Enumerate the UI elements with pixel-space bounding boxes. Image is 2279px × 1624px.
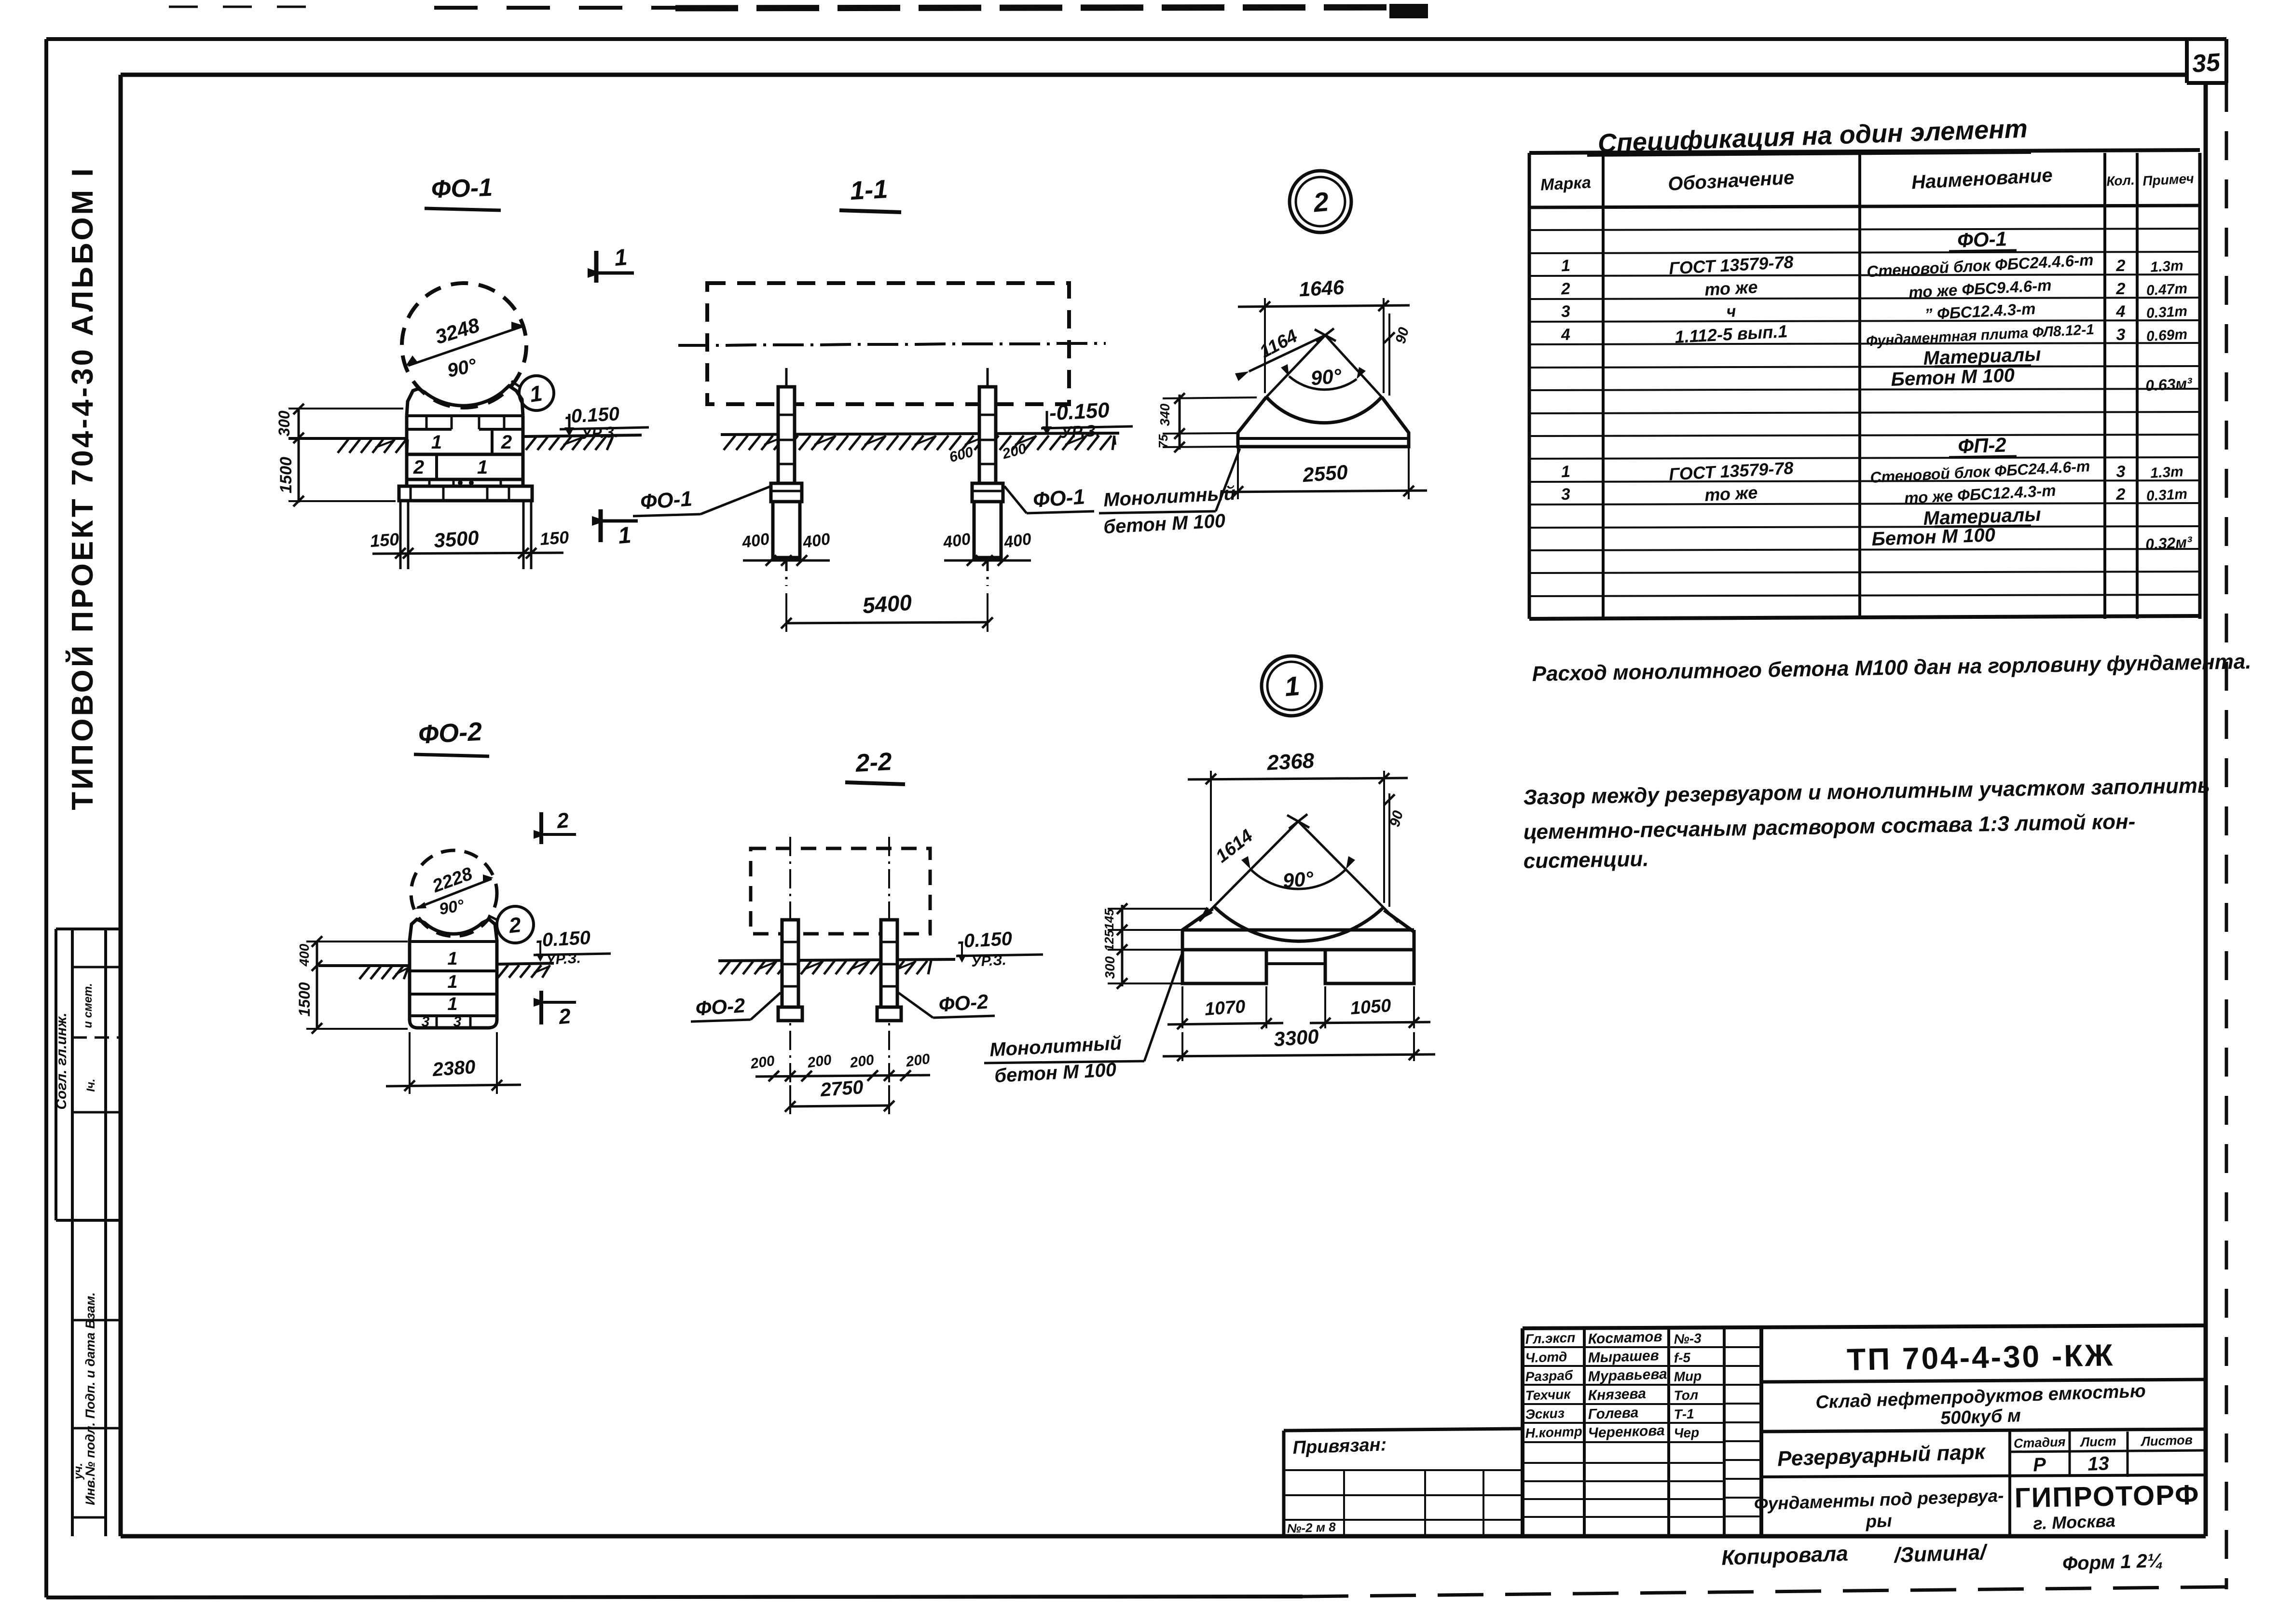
- svg-text:-0.150: -0.150: [957, 928, 1013, 952]
- svg-text:2550: 2550: [1302, 461, 1348, 486]
- foundation FO-1 masonry course lines: [407, 428, 452, 431]
- tank dashed circle FO-1: [402, 283, 526, 408]
- svg-text:2: 2: [557, 1004, 572, 1029]
- detail 2 radius lines to horns: [1266, 335, 1325, 397]
- svg-text:Форм 1 2¼: Форм 1 2¼: [2062, 1550, 2164, 1574]
- svg-text:ФО-1: ФО-1: [431, 174, 493, 204]
- svg-text:0.69т: 0.69т: [2146, 327, 2188, 344]
- tank dashed outline rectangle in section 2-2: [751, 848, 930, 934]
- svg-text:ФП-2: ФП-2: [1958, 433, 2007, 457]
- svg-text:Примеч: Примеч: [2142, 171, 2195, 189]
- svg-text:Тол: Тол: [1674, 1387, 1699, 1403]
- foundation FO-1 saddle bed joint line: [407, 414, 523, 417]
- ground line right of FO-1: [523, 435, 642, 437]
- svg-text:1: 1: [613, 245, 628, 271]
- svg-text:1.3т: 1.3т: [2150, 464, 2183, 481]
- svg-text:75: 75: [1156, 434, 1170, 448]
- FO-1 bottom dimension 150-3500-150: [372, 553, 563, 554]
- pier FO-2 at x=1843 column: [881, 920, 897, 1007]
- svg-text:ГИПРОТОРФ: ГИПРОТОРФ: [2014, 1479, 2200, 1514]
- pier FO-1 at x=2047 collar: [972, 483, 1003, 502]
- svg-text:0.32м³: 0.32м³: [2145, 533, 2193, 553]
- ground line section 1-1: [721, 433, 1119, 435]
- svg-text:1500: 1500: [277, 457, 295, 493]
- svg-text:125: 125: [1102, 930, 1116, 951]
- tank dashed outline rectangle in section 1-1: [707, 283, 1069, 404]
- FO-2 bottom dimension 2380: [409, 1032, 411, 1094]
- pier FO-1 at x=1630 collar: [771, 483, 802, 502]
- svg-text:1-1: 1-1: [850, 175, 889, 205]
- svg-text:Лист: Лист: [2079, 1434, 2116, 1450]
- svg-text:-0.150: -0.150: [1049, 398, 1111, 425]
- svg-text:35: 35: [2191, 48, 2222, 78]
- svg-text:Ч.отд: Ч.отд: [1525, 1349, 1567, 1365]
- svg-text:систенции.: систенции.: [1523, 847, 1649, 873]
- svg-text:Т-1: Т-1: [1674, 1406, 1694, 1422]
- svg-text:ч: ч: [1726, 302, 1737, 321]
- foundation FO-1 saddle outline: [407, 386, 523, 416]
- svg-text:400: 400: [942, 530, 972, 552]
- svg-text:0.47т: 0.47т: [2146, 281, 2188, 299]
- pier FO-1 at x=2047 column: [979, 387, 996, 483]
- svg-text:1: 1: [447, 972, 457, 992]
- svg-text:150: 150: [370, 529, 400, 551]
- svg-text:300: 300: [275, 410, 293, 437]
- svg-text:1.3т: 1.3т: [2150, 258, 2183, 275]
- svg-text:Согл. гл.инж.: Согл. гл.инж.: [54, 1012, 69, 1109]
- svg-text:УР.З.: УР.З.: [581, 423, 619, 442]
- detail 2 bottom dimension 2550: [1237, 447, 1239, 499]
- svg-text:ФО-1: ФО-1: [1957, 227, 2007, 252]
- pier FO-1 at x=2047 base block: [974, 502, 1001, 558]
- detail 2 saddle arc radius 1164: [1266, 397, 1382, 423]
- FO-1 bottom trench/extension lines: [399, 501, 402, 569]
- svg-text:Эскиз: Эскиз: [1525, 1406, 1565, 1422]
- svg-text:Копировала: Копировала: [1721, 1542, 1848, 1569]
- foundation FO-1 top course joints: [426, 416, 428, 429]
- svg-text:1050: 1050: [1350, 996, 1392, 1019]
- svg-text:Р: Р: [2032, 1454, 2046, 1476]
- signature table row lines: [1523, 1346, 1724, 1348]
- narrow revision column rows: [1724, 1346, 1761, 1348]
- svg-text:Князева: Князева: [1588, 1386, 1646, 1404]
- svg-text:1: 1: [477, 457, 488, 478]
- svg-text:1: 1: [447, 994, 457, 1014]
- detail 2 right mini dim 90: [1388, 314, 1390, 396]
- svg-text:400: 400: [741, 530, 771, 552]
- detail 1 overall dimension 3300: [1181, 1032, 1183, 1061]
- svg-text:3: 3: [1561, 485, 1571, 504]
- stage list columns: [2008, 1432, 2011, 1536]
- ground line right of FO-2: [497, 963, 554, 964]
- svg-text:№-3: №-3: [1674, 1331, 1702, 1347]
- outer sheet border: [46, 37, 2226, 41]
- ground hatch right of FO-2: [498, 965, 508, 978]
- detail 1 leg dimensions 1070 and 1050: [1181, 986, 1183, 1028]
- pier FO-1 at x=1630 base block: [773, 502, 800, 558]
- svg-text:Бетон М 100: Бетон М 100: [1891, 365, 2015, 390]
- svg-text:ФО-1: ФО-1: [640, 487, 693, 514]
- svg-text:2: 2: [1560, 280, 1571, 299]
- ground hatch right of FO-1: [526, 437, 536, 450]
- svg-text:уч.: уч.: [72, 1463, 85, 1480]
- signature table verticals: [1583, 1328, 1586, 1536]
- pier FO-1 at x=1630 centerline: [785, 368, 788, 390]
- ground hatch section 2-2: [720, 961, 730, 974]
- svg-text:ТП 704-4-30 -КЖ: ТП 704-4-30 -КЖ: [1846, 1337, 2114, 1377]
- svg-text:Мырашев: Мырашев: [1588, 1348, 1659, 1366]
- svg-text:f-5: f-5: [1674, 1350, 1691, 1365]
- svg-text:Голева: Голева: [1588, 1405, 1639, 1422]
- svg-text:4: 4: [1560, 326, 1571, 344]
- svg-text:3: 3: [453, 1014, 462, 1030]
- svg-text:то же: то же: [1704, 482, 1758, 505]
- svg-text:500куб м: 500куб м: [1940, 1406, 2021, 1429]
- svg-text:150: 150: [539, 527, 570, 549]
- detail 2 angle arc 90deg: [1289, 376, 1357, 390]
- detail 1 saddle body slab and legs: [1182, 909, 1414, 983]
- foundation FO-1 thin course with dots: [428, 479, 431, 486]
- section mark 2 top: [539, 812, 543, 844]
- svg-text:Привязан:: Привязан:: [1292, 1434, 1387, 1458]
- specification table grid: [1529, 150, 2200, 153]
- svg-text:1070: 1070: [1204, 996, 1246, 1020]
- foundation FO-2 outline with saddle top and rounded bottom: [410, 919, 497, 1028]
- svg-text:г. Москва: г. Москва: [2033, 1511, 2116, 1533]
- svg-text:то же: то же: [1704, 277, 1758, 300]
- svg-text:0.63м³: 0.63м³: [2145, 374, 2193, 394]
- detail 1 right mini dim 90: [1388, 793, 1390, 907]
- svg-text:5400: 5400: [862, 590, 913, 618]
- svg-text:ФО-1: ФО-1: [1032, 485, 1086, 512]
- svg-text:Кол.: Кол.: [2106, 173, 2135, 189]
- detail 1 left dimension chain: [1121, 905, 1124, 986]
- detail 1 apex center cross: [1287, 815, 1309, 828]
- svg-text:400: 400: [1002, 530, 1033, 552]
- foundation FO-1 course3 joint and labels: [435, 454, 438, 479]
- pier base dimension 400-400 at x=2047: [944, 560, 1031, 562]
- svg-text:3: 3: [1561, 302, 1571, 321]
- svg-text:2: 2: [1312, 186, 1330, 218]
- svg-text:и смет.: и смет.: [82, 983, 95, 1028]
- left margin stamp table lower: [72, 1319, 121, 1322]
- svg-text:ФО-2: ФО-2: [695, 994, 746, 1020]
- svg-text:Косматов: Косматов: [1588, 1329, 1662, 1347]
- svg-text:2: 2: [501, 432, 512, 453]
- pier FO-2 at x=1638 bottom collar: [778, 1007, 802, 1021]
- span dimension 5400 between piers: [785, 593, 787, 632]
- svg-text:1: 1: [1561, 463, 1571, 481]
- svg-text:Инв.№ подл. Подп. и дата Взам: Инв.№ подл. Подп. и дата Взам.: [83, 1292, 97, 1505]
- svg-text:3500: 3500: [433, 526, 480, 552]
- svg-text:1: 1: [1561, 257, 1571, 275]
- svg-text:1646: 1646: [1298, 276, 1345, 301]
- svg-text:400: 400: [297, 943, 312, 967]
- svg-text:1: 1: [431, 432, 442, 453]
- svg-text:Бетон М 100: Бетон М 100: [1871, 524, 1996, 550]
- svg-text:0.31т: 0.31т: [2146, 486, 2188, 504]
- svg-text:Разраб: Разраб: [1525, 1368, 1573, 1384]
- detail 1 saddle arc radius 1614: [1214, 907, 1383, 941]
- ground hatch left of FO-1: [338, 439, 348, 453]
- svg-text:ТИПОВОЙ ПРОЕКТ 704-4-30 АЛЬ: ТИПОВОЙ ПРОЕКТ 704-4-30 АЛЬБОМ I: [66, 166, 99, 810]
- detail 1 radius dimension 1614 label: [1199, 907, 1213, 920]
- diameter dimension 2228 of FO-2 circle: [417, 879, 492, 908]
- svg-text:Муравьева: Муравьева: [1588, 1366, 1667, 1385]
- foundation FO-2 bottom row joints and labels 3 3: [436, 1016, 438, 1028]
- span dimension 2750 between FO-2 piers: [789, 1085, 791, 1114]
- svg-text:Марка: Марка: [1540, 173, 1592, 194]
- svg-text:Черенкова: Черенкова: [1588, 1422, 1665, 1441]
- ground line left of FO-2: [318, 964, 410, 967]
- detail 2 radius dimension 1164 with arrow: [1249, 335, 1325, 371]
- svg-text:1: 1: [447, 949, 457, 969]
- svg-text:3: 3: [2116, 463, 2126, 481]
- svg-text:340: 340: [1157, 403, 1172, 426]
- foundation FO-1 bottom plate: [399, 486, 532, 501]
- svg-text:УР.З.: УР.З.: [545, 950, 581, 968]
- left margin stamp table upper: [56, 928, 121, 930]
- tank axis chain line in section 1-1: [678, 344, 709, 347]
- svg-text:13: 13: [2087, 1453, 2110, 1475]
- svg-text:300: 300: [1102, 956, 1117, 979]
- foundation FO-2 course lines: [410, 940, 497, 943]
- page number box 35: [2185, 39, 2189, 83]
- detail mark circle 1 at FO-1 saddle: [519, 376, 554, 410]
- svg-text:№-2 м 8: №-2 м 8: [1287, 1519, 1336, 1536]
- svg-text:90°: 90°: [1310, 364, 1343, 389]
- svg-text:2750: 2750: [819, 1077, 864, 1101]
- svg-text:/Зимина/: /Зимина/: [1893, 1541, 1989, 1568]
- svg-text:Техчик: Техчик: [1525, 1387, 1572, 1403]
- detail 1 mark double circle: [1262, 656, 1321, 716]
- svg-text:2: 2: [2116, 485, 2126, 504]
- svg-text:2: 2: [413, 457, 424, 478]
- detail 2 left dimension chain: [1179, 395, 1181, 450]
- svg-text:Мир: Мир: [1674, 1368, 1702, 1384]
- FO-2 left dimension chain: [316, 941, 318, 1030]
- diameter dimension 3248 of FO-1 circle: [408, 327, 522, 366]
- title block outer top edge: [1523, 1325, 2206, 1328]
- svg-text:Чер: Чер: [1674, 1425, 1700, 1441]
- detail mark circle 2 at FO-2: [497, 906, 534, 943]
- svg-text:1: 1: [617, 522, 632, 549]
- svg-text:-0.150: -0.150: [535, 927, 591, 951]
- svg-text:0.31т: 0.31т: [2146, 303, 2188, 321]
- svg-text:Листов: Листов: [2140, 1433, 2193, 1449]
- detail 1 top dimension 2368: [1210, 771, 1212, 901]
- svg-text:1: 1: [1283, 670, 1301, 702]
- detail 1 angle arc 90deg: [1250, 869, 1346, 889]
- svg-text:400: 400: [801, 530, 832, 552]
- tank dashed circle FO-2: [411, 850, 497, 936]
- svg-text:145: 145: [1102, 909, 1116, 930]
- svg-text:УР.З.: УР.З.: [971, 952, 1006, 970]
- pier FO-2 at x=1843 bottom collar: [877, 1007, 901, 1021]
- svg-text:3: 3: [422, 1014, 430, 1030]
- svg-text:2: 2: [555, 808, 570, 833]
- ground hatch section 1-1: [724, 436, 735, 450]
- svg-text:Н.контр: Н.контр: [1525, 1424, 1582, 1441]
- detail 1 radius lines to horns: [1199, 821, 1298, 921]
- section mark 1 bottom: [599, 509, 603, 542]
- ground hatch left of FO-2: [359, 967, 370, 979]
- svg-text:2380: 2380: [431, 1056, 476, 1080]
- pier FO-1 at x=1630 column: [778, 387, 795, 483]
- foundation FO-1 course2 joint and labels: [491, 429, 494, 454]
- section mark 2 bottom: [539, 991, 543, 1024]
- pier FO-1 at x=2047 centerline: [987, 368, 989, 390]
- svg-text:1500: 1500: [296, 982, 313, 1016]
- section mark 1 top: [594, 251, 599, 283]
- detail 2 saddle body and slab: [1238, 397, 1409, 447]
- svg-text:Iч.: Iч.: [84, 1078, 97, 1092]
- svg-text:90°: 90°: [1282, 867, 1315, 892]
- pier FO-2 at x=1843 centerline: [888, 837, 890, 856]
- FO-1 left dimension chain: [298, 408, 300, 503]
- privyazan box: [1284, 1429, 1523, 1431]
- svg-text:2-2: 2-2: [854, 748, 892, 778]
- svg-text:ФО-2: ФО-2: [938, 990, 989, 1016]
- svg-text:3: 3: [2116, 326, 2126, 344]
- pier FO-2 at x=1638 column: [782, 920, 798, 1007]
- svg-text:2368: 2368: [1266, 749, 1315, 775]
- pier base dimension 400-400 at x=1630: [743, 560, 830, 562]
- svg-text:ры: ры: [1865, 1511, 1893, 1531]
- svg-text:2: 2: [2116, 257, 2126, 275]
- ground line left of FO-1: [288, 437, 407, 440]
- svg-text:Гл.эксп: Гл.эксп: [1525, 1330, 1576, 1347]
- svg-text:УР.З.: УР.З.: [1060, 422, 1100, 442]
- inner drawing frame: [121, 73, 2187, 77]
- ground line section 2-2: [718, 959, 955, 961]
- scan artifact dashes top edge: [169, 6, 309, 8]
- pier FO-2 at x=1638 centerline: [789, 837, 791, 856]
- pier bottom dims 200 200 section 2-2: [755, 1075, 930, 1077]
- foundation FO-1 body sides: [405, 416, 409, 486]
- svg-text:3300: 3300: [1273, 1025, 1319, 1051]
- svg-text:ФО-2: ФО-2: [417, 717, 482, 750]
- detail 2 top dimension 1646: [1264, 298, 1266, 393]
- detail 2 mark double circle: [1290, 171, 1351, 232]
- svg-text:4: 4: [2116, 302, 2126, 321]
- detail 2 apex center cross: [1315, 329, 1336, 341]
- detail 1 notch between legs: [1266, 962, 1325, 965]
- svg-text:2: 2: [2116, 280, 2126, 298]
- svg-text:Стадия: Стадия: [2013, 1434, 2066, 1451]
